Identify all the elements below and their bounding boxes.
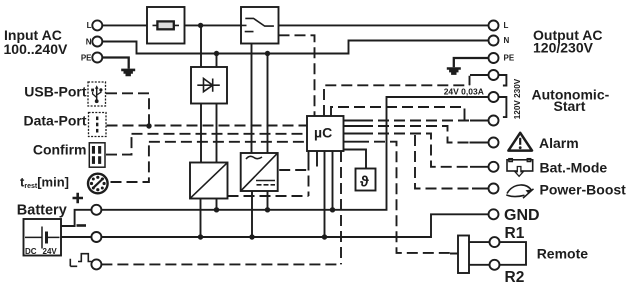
svg-text:Start: Start [554,98,586,114]
svg-text:USB-Port: USB-Port [24,83,87,99]
svg-text:L: L [504,21,509,30]
svg-text:Confirm: Confirm [33,142,87,158]
svg-text:N: N [504,36,510,45]
svg-text:Data-Port: Data-Port [23,112,86,128]
svg-text:Power-Boost: Power-Boost [540,182,627,198]
svg-text:Alarm: Alarm [539,135,579,151]
svg-text:PE: PE [504,54,515,63]
svg-text:PE: PE [81,53,92,62]
svg-text:L: L [87,21,92,30]
svg-text:Bat.-Mode: Bat.-Mode [540,160,608,176]
svg-text:µC: µC [314,125,332,141]
svg-text:GND: GND [504,207,540,224]
svg-text:120/230V: 120/230V [533,40,594,56]
svg-text:R2: R2 [505,269,525,286]
svg-text:24V 0,03A: 24V 0,03A [444,87,484,97]
svg-text:DC: DC [25,247,37,256]
svg-text:N: N [86,37,92,46]
svg-text:ϑ: ϑ [360,174,369,191]
svg-text:24V: 24V [43,247,58,256]
svg-text:R1: R1 [505,225,525,242]
svg-text:120V 230V: 120V 230V [513,78,522,119]
svg-text:trest[min]: trest[min] [20,175,69,191]
svg-text:Battery: Battery [17,202,67,218]
svg-text:Remote: Remote [537,245,589,261]
svg-text:100..240V: 100..240V [4,41,68,57]
